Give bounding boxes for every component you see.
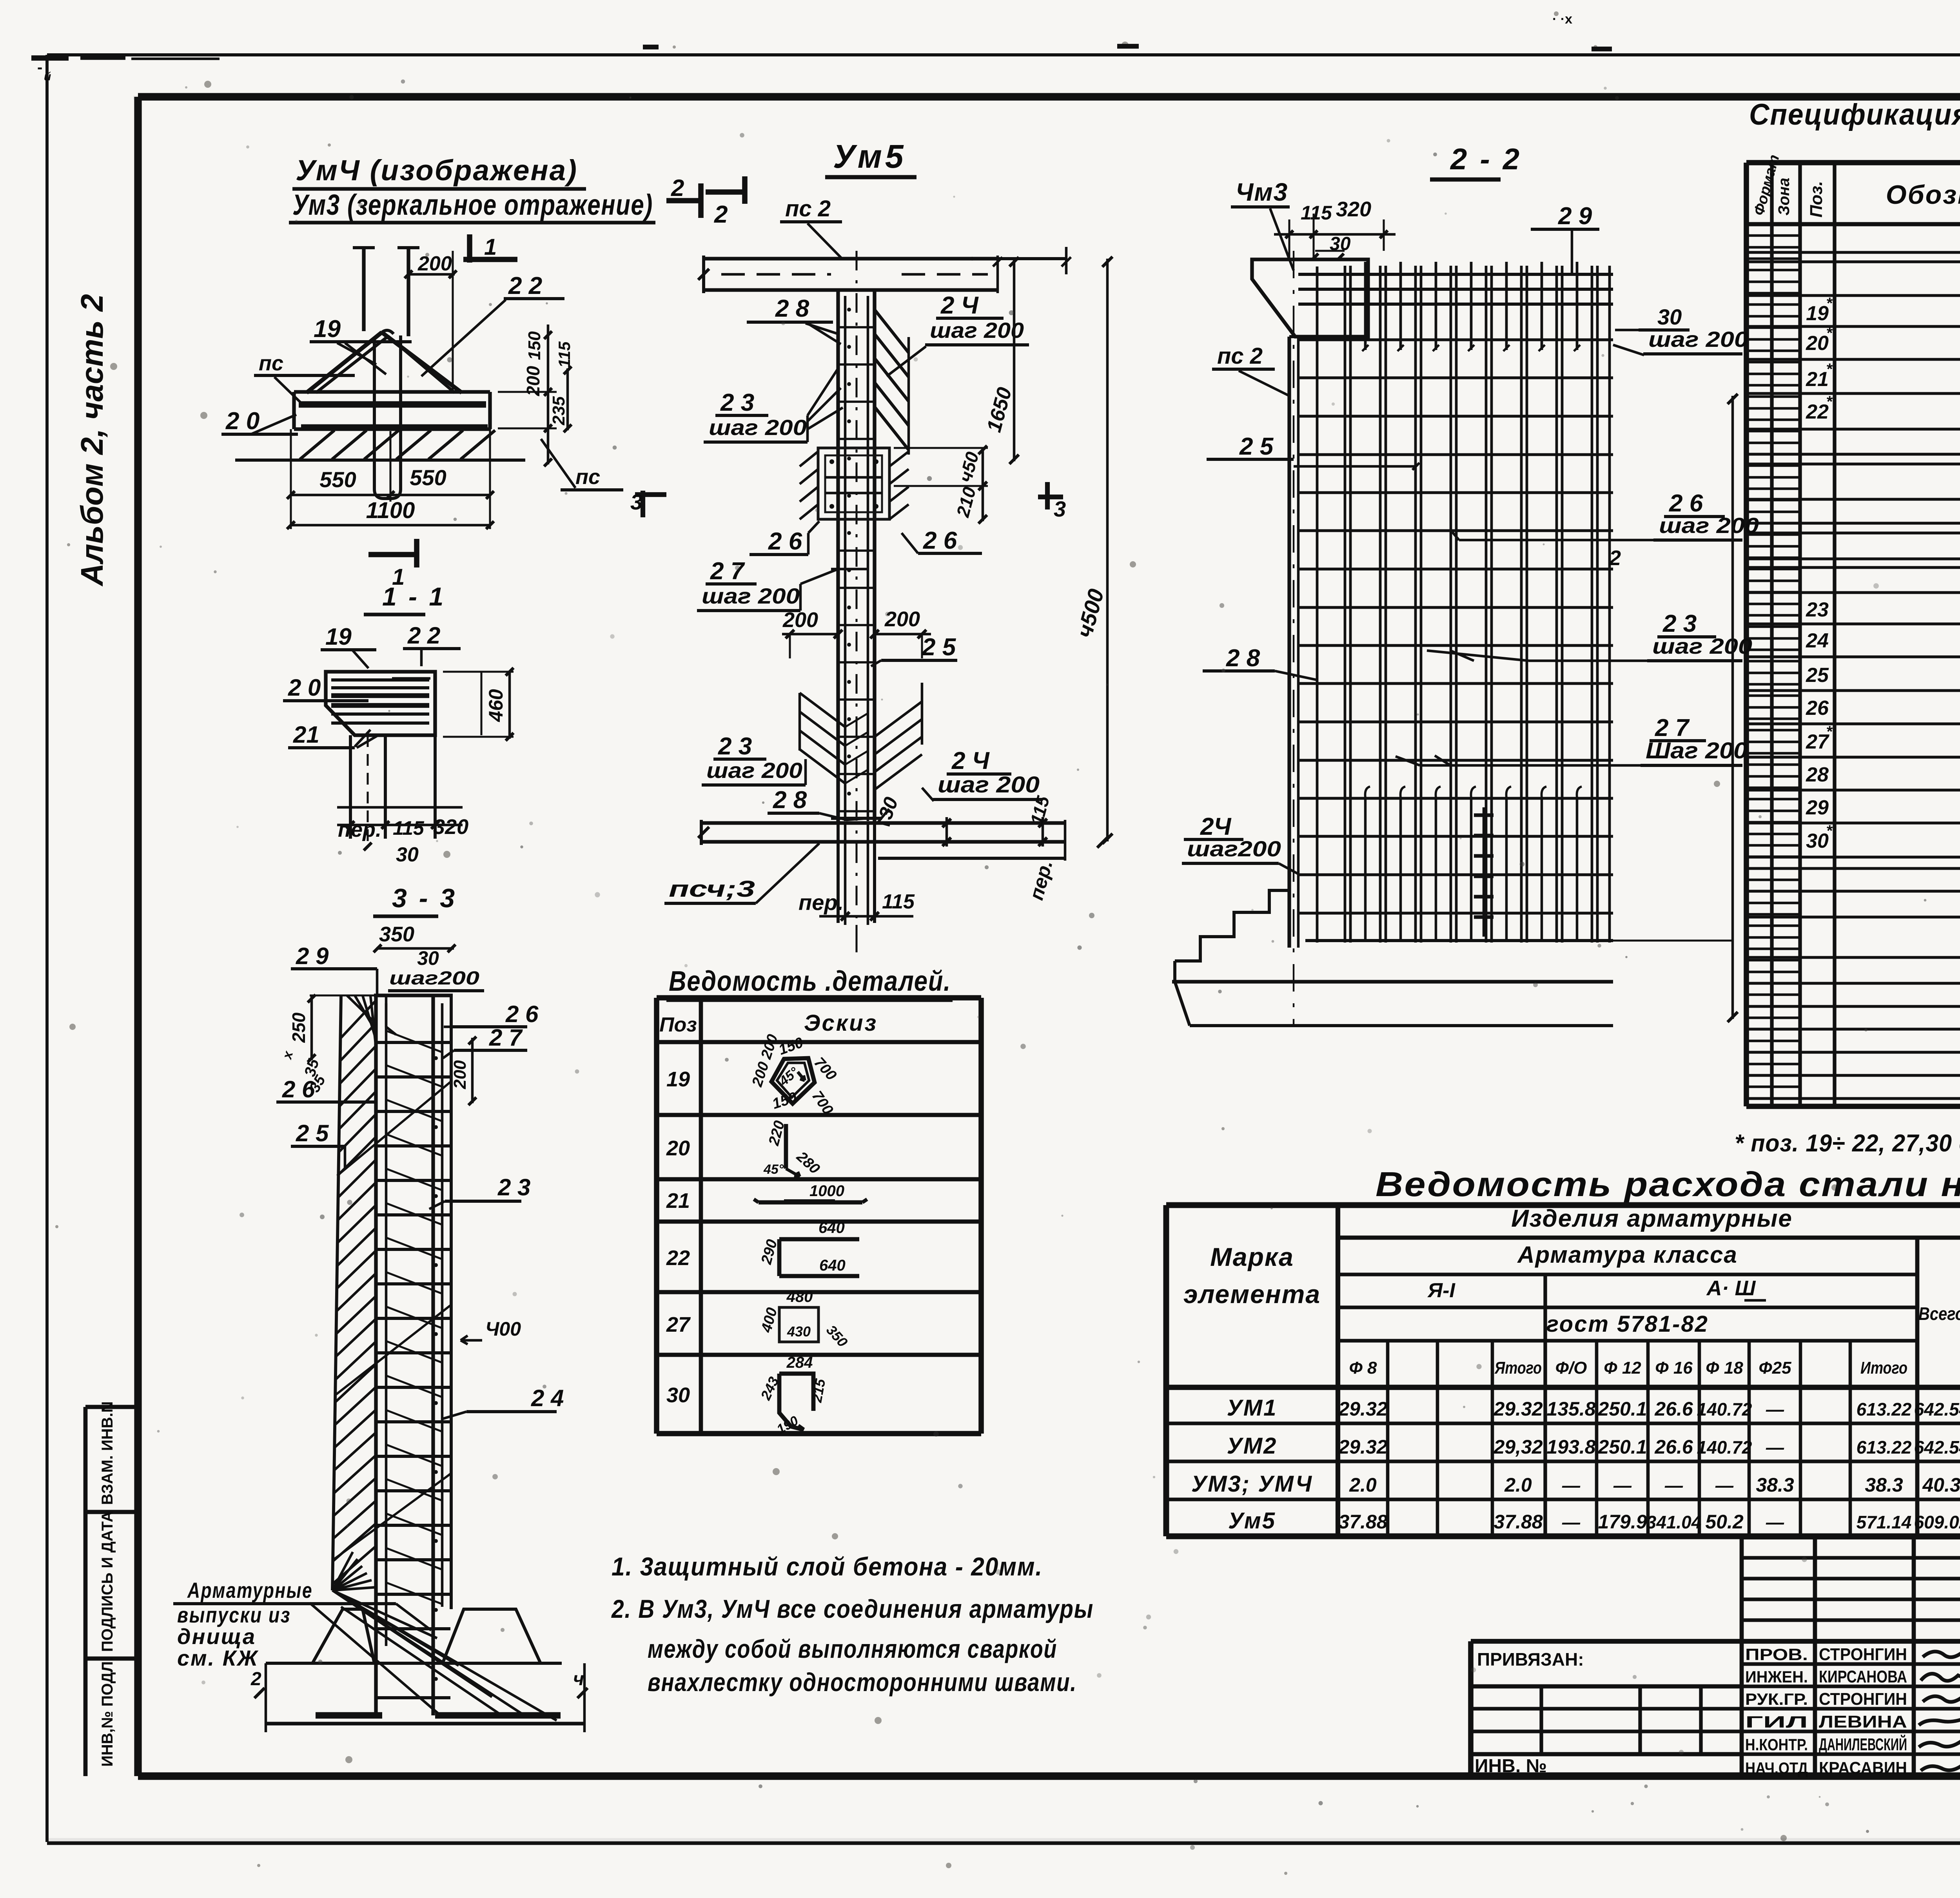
svg-text:—: — xyxy=(1766,1399,1784,1419)
svg-text:38.3: 38.3 xyxy=(1756,1474,1794,1496)
svg-text:2: 2 xyxy=(250,1669,261,1690)
svg-text:Ум3 (зеркальное отражение): Ум3 (зеркальное отражение) xyxy=(292,189,653,221)
svg-text:между собой выполняются сварко: между собой выполняются сваркой xyxy=(648,1634,1057,1663)
svg-text:Ведомость .деталей.: Ведомость .деталей. xyxy=(669,966,951,997)
svg-text:1100: 1100 xyxy=(366,498,415,523)
svg-text:20: 20 xyxy=(666,1137,690,1160)
svg-text:200: 200 xyxy=(884,607,920,631)
svg-text:НАЧ.ОТД: НАЧ.ОТД xyxy=(1745,1759,1808,1777)
svg-text:—: — xyxy=(1562,1475,1581,1496)
svg-text:27: 27 xyxy=(666,1313,691,1336)
svg-text:341.04: 341.04 xyxy=(1646,1512,1702,1532)
svg-text:193.8: 193.8 xyxy=(1546,1436,1595,1458)
svg-text:320: 320 xyxy=(433,815,468,839)
svg-text:140.72: 140.72 xyxy=(1697,1437,1752,1457)
svg-text:Ф 8: Ф 8 xyxy=(1349,1358,1377,1378)
svg-text:2 6: 2 6 xyxy=(505,1001,539,1027)
svg-text:2 0: 2 0 xyxy=(288,674,321,701)
svg-text:29.32: 29.32 xyxy=(1338,1436,1387,1458)
svg-text:УМ3; УМЧ: УМ3; УМЧ xyxy=(1191,1471,1313,1497)
svg-text:550: 550 xyxy=(410,465,446,490)
svg-text:2 6: 2 6 xyxy=(768,528,802,555)
svg-text:Ум5: Ум5 xyxy=(833,138,907,175)
svg-text:пс 2: пс 2 xyxy=(785,196,831,221)
svg-text:ПРИВЯЗАН:: ПРИВЯЗАН: xyxy=(1477,1649,1584,1670)
svg-text:Ведомость расхода стали на: Ведомость расхода стали на элемент, кг. xyxy=(1376,1165,1960,1204)
svg-text:2 5: 2 5 xyxy=(296,1120,329,1146)
svg-text:19: 19 xyxy=(666,1068,690,1091)
svg-text:21: 21 xyxy=(293,721,319,748)
svg-text:29,32: 29,32 xyxy=(1493,1436,1543,1458)
svg-text:19: 19 xyxy=(325,624,352,650)
svg-text:26.6: 26.6 xyxy=(1654,1436,1693,1458)
svg-text:пс: пс xyxy=(575,465,600,489)
svg-text:шаг 200: шаг 200 xyxy=(930,318,1024,343)
svg-text:350: 350 xyxy=(379,923,414,946)
svg-text:1: 1 xyxy=(484,234,497,260)
svg-text:609.02: 609.02 xyxy=(1914,1512,1960,1532)
svg-text:А· Ш: А· Ш xyxy=(1706,1276,1756,1300)
svg-text:550: 550 xyxy=(319,467,356,492)
svg-text:30: 30 xyxy=(1657,305,1682,329)
svg-text:3 - 3: 3 - 3 xyxy=(392,883,457,913)
svg-text:642.54: 642.54 xyxy=(1914,1437,1960,1457)
svg-text:38.3: 38.3 xyxy=(1865,1474,1903,1496)
svg-text:УмЧ (изображена): УмЧ (изображена) xyxy=(296,154,578,187)
svg-text:УМ1: УМ1 xyxy=(1227,1395,1278,1421)
svg-text:гост 5781-82: гост 5781-82 xyxy=(1546,1311,1709,1337)
svg-text:2: 2 xyxy=(1609,546,1621,570)
svg-text:Ф/О: Ф/О xyxy=(1555,1358,1587,1378)
svg-text:480: 480 xyxy=(786,1288,813,1305)
svg-text:Марка: Марка xyxy=(1210,1242,1294,1271)
svg-text:· ·х: · ·х xyxy=(1552,12,1572,27)
svg-text:2 8: 2 8 xyxy=(1226,645,1260,672)
svg-text:29.32: 29.32 xyxy=(1493,1398,1543,1420)
svg-text:—: — xyxy=(1613,1475,1632,1496)
svg-text:20: 20 xyxy=(1806,332,1829,355)
svg-text:Ф 12: Ф 12 xyxy=(1604,1358,1641,1378)
svg-text:2.0: 2.0 xyxy=(1504,1474,1532,1496)
svg-text:179.9: 179.9 xyxy=(1598,1511,1647,1533)
svg-text:3: 3 xyxy=(1054,497,1066,521)
svg-text:571.14: 571.14 xyxy=(1857,1512,1912,1532)
svg-text:Обозначение: Обозначение xyxy=(1886,180,1960,210)
svg-text:2 7: 2 7 xyxy=(489,1024,523,1051)
svg-text:250.1: 250.1 xyxy=(1597,1398,1647,1420)
svg-text:й: й xyxy=(44,70,51,83)
svg-text:50.2: 50.2 xyxy=(1705,1511,1744,1533)
svg-text:ВЗАМ. ИНВ.N: ВЗАМ. ИНВ.N xyxy=(99,1401,116,1505)
svg-text:ЛЕВИНА: ЛЕВИНА xyxy=(1819,1712,1907,1731)
svg-text:2.0: 2.0 xyxy=(1349,1474,1377,1496)
svg-text:см. КЖ: см. КЖ xyxy=(177,1646,259,1670)
svg-text:23: 23 xyxy=(1806,598,1829,621)
svg-text:Я-І: Я-І xyxy=(1427,1279,1455,1302)
svg-text:2 8: 2 8 xyxy=(773,787,807,814)
svg-text:19: 19 xyxy=(314,315,341,343)
svg-text:Ф 16: Ф 16 xyxy=(1655,1358,1693,1378)
svg-text:Арматурные: Арматурные xyxy=(187,1578,313,1603)
svg-text:200: 200 xyxy=(782,608,818,632)
svg-text:2 - 2: 2 - 2 xyxy=(1450,143,1522,176)
svg-text:КИРСАНОВА: КИРСАНОВА xyxy=(1819,1667,1907,1686)
svg-text:140.72: 140.72 xyxy=(1697,1399,1752,1419)
svg-text:Всего: Всего xyxy=(1918,1303,1960,1324)
svg-text:—: — xyxy=(1766,1512,1784,1532)
svg-text:Чм3: Чм3 xyxy=(1236,178,1288,206)
svg-text:шаг 200: шаг 200 xyxy=(1648,327,1748,352)
svg-text:—: — xyxy=(1562,1512,1581,1532)
svg-text:2 0: 2 0 xyxy=(225,408,260,435)
svg-text:2 7: 2 7 xyxy=(1655,714,1690,741)
svg-text:25: 25 xyxy=(1806,664,1829,687)
svg-text:СТРОНГИН: СТРОНГИН xyxy=(1819,1690,1907,1709)
svg-text:45°: 45° xyxy=(763,1162,784,1177)
svg-text:РУК.ГР.: РУК.ГР. xyxy=(1745,1690,1808,1708)
svg-text:430: 430 xyxy=(787,1323,811,1340)
svg-text:Зона: Зона xyxy=(1775,178,1793,216)
svg-text:2 3: 2 3 xyxy=(720,389,754,416)
svg-text:*: * xyxy=(1826,822,1833,839)
svg-text:2 5: 2 5 xyxy=(1239,433,1274,460)
svg-text:Спецификация к монолитным у: Спецификация к монолитным участкам Ум3 ÷… xyxy=(1749,98,1960,131)
svg-text:2: 2 xyxy=(714,201,728,228)
svg-text:30: 30 xyxy=(396,843,419,866)
svg-text:115: 115 xyxy=(555,341,573,368)
svg-text:2 3: 2 3 xyxy=(718,733,752,760)
svg-text:2. В Ум3, УмЧ все соединения а: 2. В Ум3, УмЧ все соединения арматуры xyxy=(611,1594,1094,1623)
svg-text:шаг200: шаг200 xyxy=(389,968,479,989)
svg-text:Ятого: Ятого xyxy=(1494,1358,1542,1378)
svg-text:37.88: 37.88 xyxy=(1338,1511,1387,1533)
svg-text:пс: пс xyxy=(259,352,283,375)
svg-text:шаг 200: шаг 200 xyxy=(1659,513,1759,538)
svg-text:2 2: 2 2 xyxy=(508,272,542,299)
svg-text:Поз: Поз xyxy=(659,1013,697,1036)
svg-text:1 - 1: 1 - 1 xyxy=(382,582,446,611)
svg-text:2 9: 2 9 xyxy=(1558,203,1592,230)
svg-text:*: * xyxy=(1826,295,1833,312)
svg-text:1000: 1000 xyxy=(809,1182,844,1200)
svg-text:Арматура класса: Арматура класса xyxy=(1517,1242,1738,1268)
svg-text:шаг 200: шаг 200 xyxy=(709,415,807,440)
svg-text:21: 21 xyxy=(1806,368,1829,391)
svg-text:29: 29 xyxy=(1806,796,1829,819)
svg-text:30: 30 xyxy=(666,1383,690,1407)
svg-text:135.8: 135.8 xyxy=(1546,1398,1595,1420)
svg-text:пс 2: пс 2 xyxy=(1217,343,1263,369)
svg-text:2: 2 xyxy=(671,175,684,201)
svg-text:шаг 200: шаг 200 xyxy=(1652,634,1752,658)
svg-text:2 Ч: 2 Ч xyxy=(940,292,979,319)
svg-text:ПОДЛИСЬ И ДАТА: ПОДЛИСЬ И ДАТА xyxy=(99,1511,116,1652)
svg-text:2 8: 2 8 xyxy=(775,295,809,322)
svg-text:2 3: 2 3 xyxy=(1662,610,1697,637)
svg-text:-: - xyxy=(37,59,42,76)
svg-text:ч: ч xyxy=(573,1669,584,1690)
svg-text:шаг 200: шаг 200 xyxy=(938,772,1040,798)
svg-text:2 6: 2 6 xyxy=(923,527,957,554)
svg-text:шаг 200: шаг 200 xyxy=(706,758,802,783)
svg-text:Эскиз: Эскиз xyxy=(804,1010,878,1036)
svg-text:—: — xyxy=(1766,1437,1784,1457)
svg-text:ИНЖЕН.: ИНЖЕН. xyxy=(1745,1668,1808,1686)
svg-text:ДАНИЛЕВСКИЙ: ДАНИЛЕВСКИЙ xyxy=(1819,1734,1907,1754)
svg-text:внахлестку односторонними швам: внахлестку односторонними швами. xyxy=(648,1668,1077,1697)
svg-text:псч;3: псч;3 xyxy=(669,876,755,902)
svg-text:284: 284 xyxy=(786,1354,813,1371)
svg-text:21: 21 xyxy=(666,1189,690,1213)
svg-text:2 3: 2 3 xyxy=(497,1174,530,1200)
svg-text:640: 640 xyxy=(819,1257,846,1274)
svg-text:УМ2: УМ2 xyxy=(1227,1433,1278,1459)
svg-text:37.88: 37.88 xyxy=(1494,1511,1543,1533)
svg-text:выпуски из: выпуски из xyxy=(177,1603,291,1627)
svg-text:30: 30 xyxy=(417,947,439,969)
svg-text:115: 115 xyxy=(1301,202,1332,224)
svg-text:днища: днища xyxy=(177,1624,256,1649)
svg-text:Ч00: Ч00 xyxy=(485,1318,521,1340)
svg-text:ИНВ,№ ПОДЛ.: ИНВ,№ ПОДЛ. xyxy=(99,1657,116,1767)
svg-text:Ум5: Ум5 xyxy=(1228,1508,1276,1534)
svg-text:30: 30 xyxy=(1806,830,1829,852)
svg-text:150: 150 xyxy=(525,331,544,360)
svg-text:115: 115 xyxy=(393,817,425,839)
svg-text:*: * xyxy=(1826,361,1833,378)
svg-text:шаг200: шаг200 xyxy=(1187,836,1281,861)
svg-text:2 5: 2 5 xyxy=(922,634,956,661)
svg-text:320: 320 xyxy=(1336,198,1371,221)
svg-text:40.3: 40.3 xyxy=(1922,1474,1960,1496)
svg-text:460: 460 xyxy=(485,689,507,722)
svg-text:613.22: 613.22 xyxy=(1857,1399,1912,1419)
svg-text:250: 250 xyxy=(289,1012,309,1043)
svg-text:Ф 18: Ф 18 xyxy=(1706,1358,1743,1378)
svg-text:28: 28 xyxy=(1806,763,1829,786)
svg-text:Изделия арматурные: Изделия арматурные xyxy=(1511,1205,1793,1232)
svg-text:29.32: 29.32 xyxy=(1338,1398,1387,1420)
svg-text:22: 22 xyxy=(666,1246,690,1270)
svg-text:*: * xyxy=(1826,324,1833,342)
svg-text:19: 19 xyxy=(1806,302,1829,325)
svg-text:элемента: элемента xyxy=(1183,1280,1321,1309)
svg-text:200: 200 xyxy=(523,366,543,396)
svg-text:Ф25: Ф25 xyxy=(1759,1358,1791,1378)
svg-text:200: 200 xyxy=(417,252,452,275)
svg-text:24: 24 xyxy=(1806,629,1829,652)
svg-text:Н.КОНТР.: Н.КОНТР. xyxy=(1745,1735,1808,1754)
svg-text:пер.: пер. xyxy=(799,890,844,915)
svg-text:26.6: 26.6 xyxy=(1654,1398,1693,1420)
svg-text:26: 26 xyxy=(1806,697,1829,720)
svg-text:640: 640 xyxy=(818,1219,845,1236)
svg-text:—: — xyxy=(1664,1475,1683,1496)
svg-text:613.22: 613.22 xyxy=(1857,1437,1912,1457)
svg-text:*: * xyxy=(1826,723,1833,740)
svg-text:—: — xyxy=(1715,1475,1734,1496)
svg-text:22: 22 xyxy=(1806,401,1829,423)
svg-text:*: * xyxy=(1826,393,1833,410)
svg-text:СТРОНГИН: СТРОНГИН xyxy=(1819,1645,1907,1664)
svg-text:* поз. 19÷ 22, 27,30 см. Ведом: * поз. 19÷ 22, 27,30 см. Ведомость детал… xyxy=(1735,1130,1960,1157)
svg-text:Поз.: Поз. xyxy=(1807,181,1826,218)
svg-text:642.54: 642.54 xyxy=(1914,1399,1960,1419)
svg-text:2 4: 2 4 xyxy=(531,1385,564,1411)
svg-text:115: 115 xyxy=(882,890,915,913)
svg-text:ПРОВ.: ПРОВ. xyxy=(1745,1645,1808,1664)
svg-text:ИНВ. №: ИНВ. № xyxy=(1475,1756,1547,1777)
svg-text:КРАСАВИН: КРАСАВИН xyxy=(1819,1758,1907,1778)
svg-text:250.1: 250.1 xyxy=(1597,1436,1647,1458)
svg-text:2 Ч: 2 Ч xyxy=(951,747,990,774)
svg-text:1. 3ащитный слой бетона - 20м: 1. 3ащитный слой бетона - 20мм. xyxy=(612,1552,1043,1581)
svg-text:2 9: 2 9 xyxy=(296,943,329,969)
svg-text:2 2: 2 2 xyxy=(407,622,440,649)
svg-text:200: 200 xyxy=(450,1060,470,1089)
svg-text:3: 3 xyxy=(630,489,642,514)
svg-text:Альбом 2, часть 2: Альбом 2, часть 2 xyxy=(74,294,109,587)
svg-text:Итого: Итого xyxy=(1860,1358,1907,1378)
svg-text:шаг 200: шаг 200 xyxy=(702,584,800,608)
svg-text:пер.: пер. xyxy=(338,818,381,841)
svg-text:ГИЛ: ГИЛ xyxy=(1745,1713,1808,1731)
svg-text:2 7: 2 7 xyxy=(710,558,745,585)
svg-text:235: 235 xyxy=(549,396,568,426)
